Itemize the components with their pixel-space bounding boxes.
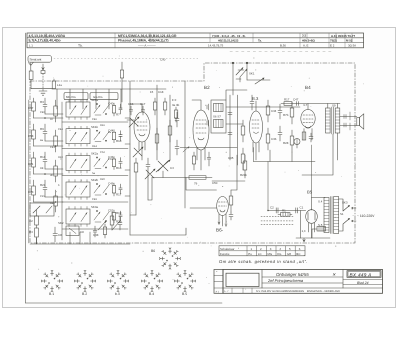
mid vertical wire b	[156, 85, 158, 160]
svg-text:C34: C34	[271, 109, 277, 113]
svg-text:C17: C17	[140, 102, 146, 106]
resistor R9	[32, 152, 36, 174]
tube B4 cathode components	[302, 132, 313, 142]
IF transformer T1	[207, 100, 226, 133]
label C58	[284, 98, 336, 108]
AF coupling column resistor R28	[266, 100, 270, 122]
socket diagram B3	[107, 270, 128, 291]
svg-text:R28: R28	[283, 141, 289, 145]
heater dotted wires	[261, 216, 293, 224]
svg-text:C2: C2	[270, 206, 274, 210]
resistor R1 left column	[32, 98, 36, 118]
capacitor C53 bottom	[93, 226, 97, 237]
resistor R2 lower-left	[35, 210, 39, 244]
svg-text:15: 15	[150, 90, 154, 94]
faint separator dots under table	[54, 52, 332, 59]
svg-text:Schakelaar: Schakelaar	[220, 247, 234, 251]
svg-text:C41: C41	[50, 146, 55, 149]
svg-text:C40: C40	[40, 111, 45, 114]
B+ feed wire	[337, 104, 339, 109]
switch table row 1 text	[220, 247, 301, 251]
svg-text:SK3: SK3	[342, 201, 348, 205]
switch wafer SK2b	[66, 180, 90, 200]
svg-text:C49: C49	[108, 182, 114, 186]
svg-text:GR: GR	[287, 252, 291, 256]
table row 1 text	[29, 34, 356, 38]
mixer tube B1	[130, 104, 150, 160]
grid feed wire to B6	[186, 178, 217, 191]
scan speckle	[37, 56, 364, 290]
svg-text:✕: ✕	[332, 272, 336, 277]
svg-text:B.5: B.5	[182, 292, 187, 296]
ground symbol	[39, 89, 47, 96]
AF tube B6	[217, 197, 229, 227]
svg-text:B6-: B6-	[216, 228, 224, 233]
svg-text:C05: C05	[228, 156, 234, 160]
svg-text:C46: C46	[92, 118, 97, 121]
anode wire B6	[190, 207, 217, 209]
AF switch contact	[183, 147, 189, 153]
svg-text:79: 79	[194, 182, 198, 186]
labels row SK2a	[91, 152, 122, 170]
handwritten note	[219, 259, 308, 264]
svg-text:R2: R2	[29, 219, 33, 223]
resistor R29	[266, 128, 270, 150]
svg-text:Pu: Pu	[248, 252, 252, 256]
loudspeaker	[357, 114, 364, 129]
antenna symbol	[28, 63, 33, 71]
svg-text:C47: C47	[293, 98, 299, 102]
svg-text:2: 2	[260, 247, 262, 251]
svg-text:S6 S7: S6 S7	[213, 115, 221, 119]
svg-text:2ef Principeschema: 2ef Principeschema	[267, 278, 304, 283]
electrolytic C2	[276, 208, 278, 213]
svg-text:14,43,78,75: 14,43,78,75	[208, 43, 224, 47]
svg-text:R4: R4	[29, 230, 33, 234]
grid leak C29 under B2	[207, 152, 211, 166]
socket diagram B2	[74, 270, 95, 291]
svg-text:R17: R17	[116, 192, 122, 196]
svg-text:R14: R14	[92, 145, 97, 148]
svg-text:R7: R7	[116, 112, 120, 116]
svg-text:C67: C67	[28, 106, 34, 110]
svg-text:3 2: 3 2	[302, 34, 306, 38]
trimmer capacitor C3	[129, 117, 139, 127]
speaker wires	[340, 117, 357, 126]
svg-text:5: 5	[289, 247, 291, 251]
resistor R1b output feed	[284, 102, 299, 106]
svg-text:C50: C50	[212, 181, 218, 185]
svg-text:R7: R7	[50, 118, 54, 121]
subtitle text	[267, 278, 304, 283]
drawing number box BX449A	[347, 271, 381, 278]
antenna coil L1	[52, 79, 55, 89]
svg-text:R21: R21	[40, 183, 46, 187]
switch SK1c	[236, 68, 247, 83]
pilot lamp	[294, 139, 300, 149]
sheet number	[343, 279, 383, 284]
wire y181	[212, 180, 245, 182]
resistor R15 top row	[174, 107, 177, 122]
T1 labels	[213, 115, 221, 119]
svg-text:R12: R12	[50, 202, 55, 205]
svg-text:R20: R20	[116, 219, 122, 223]
svg-text:R3: R3	[40, 100, 44, 104]
volume pot wiper arrow	[247, 78, 270, 84]
IF amp tube B3	[250, 101, 263, 160]
svg-text:B,50: B,50	[280, 43, 286, 47]
transformer core lines	[331, 197, 332, 234]
potentiometer R9b	[189, 176, 206, 180]
transformer primary top wire	[327, 104, 329, 109]
resistor R13 top row	[163, 98, 166, 115]
svg-text:SK2: SK2	[58, 221, 64, 225]
switch wafer SK1b	[66, 126, 90, 146]
AVC line drop 1	[232, 62, 234, 95]
labels row SK2b	[91, 178, 122, 196]
B6 bypass cap	[229, 212, 233, 220]
output tube B4	[301, 104, 315, 141]
svg-text:7,530 . 3×1,2 . 45 . 19 . B.: 7,530 . 3×1,2 . 45 . 19 . B.	[212, 34, 246, 38]
resistor R22 bottom	[103, 224, 106, 238]
output transformer core	[332, 107, 334, 134]
HT bottom wire	[296, 238, 330, 242]
mains voltage label	[357, 214, 375, 218]
svg-text:MG KG: MG KG	[66, 95, 76, 99]
PSU feed wire	[268, 210, 306, 212]
socket diagram B5	[174, 270, 195, 291]
resistor R30	[290, 102, 294, 124]
plate return wire	[302, 134, 333, 175]
drawing frame left edge	[25, 33, 27, 303]
capacitor C9	[43, 152, 47, 169]
tube B1 grid cap	[127, 119, 134, 121]
svg-text:R19: R19	[116, 211, 122, 215]
capacitor C46	[119, 158, 122, 168]
HT dropper wire	[253, 148, 255, 162]
company strip	[232, 288, 252, 293]
svg-text:40(13),21,(A)23: 40(13),21,(A)23	[218, 38, 239, 42]
wafer column bus	[61, 102, 63, 240]
mains transformer primary S4	[324, 198, 329, 233]
svg-text:C40: C40	[108, 102, 114, 106]
SK4 label	[342, 201, 348, 205]
svg-text:C4: C4	[170, 166, 174, 170]
oscillator tube B2 envelope	[192, 100, 209, 170]
misc IF labels row	[128, 90, 180, 107]
svg-text:M 52: M 52	[346, 38, 353, 42]
resistor R10	[112, 130, 115, 143]
left bus wire	[28, 100, 30, 243]
row wire SK2a	[62, 175, 128, 177]
IF bus wire	[254, 161, 316, 163]
screen wire	[337, 133, 339, 160]
svg-text:C15: C15	[40, 195, 45, 198]
wire below B1 to bus	[130, 178, 152, 216]
wire drops from bus	[57, 89, 121, 109]
svg-text:R20: R20	[100, 178, 105, 181]
svg-text:4a: 4a	[40, 139, 43, 142]
svg-text:—— A ———: —— A ———	[138, 43, 156, 47]
contacts right of SK1a	[94, 103, 109, 115]
B6 designation	[216, 228, 224, 233]
title text Ontvanger	[276, 272, 336, 277]
svg-text:75(2): 75(2)	[330, 38, 337, 42]
wire bus top of tuner	[52, 88, 166, 90]
svg-text:4,5,13,19,35,40A,VGRA: 4,5,13,19,35,40A,VGRA	[29, 34, 66, 38]
svg-text:R14: R14	[40, 155, 46, 159]
C4 reservoir label	[302, 229, 306, 233]
capacitor C22 below B1	[146, 158, 150, 200]
svg-text:B2: B2	[204, 85, 210, 90]
svg-text:A · 7: A · 7	[224, 290, 229, 293]
coil L2 left	[54, 100, 58, 122]
wire across detector	[226, 107, 281, 124]
bottom bus wire lower-left	[30, 238, 130, 244]
svg-text:R8: R8	[40, 167, 44, 170]
wafer drop wires	[70, 232, 90, 244]
table row 3 text	[29, 43, 356, 47]
resistor R19	[110, 212, 114, 230]
coil L4 left	[54, 160, 58, 182]
svg-text:Smal.ant: Smal.ant	[30, 57, 42, 61]
svg-text:C71: C71	[28, 162, 34, 166]
svg-text:R10: R10	[116, 139, 122, 143]
svg-text:C36: C36	[271, 137, 277, 141]
resistor R12	[32, 180, 36, 202]
capacitor C15 mid	[175, 140, 179, 155]
svg-text:C8: C8	[58, 233, 62, 237]
socket diagram B6	[159, 248, 180, 269]
top parts-list table	[27, 33, 364, 48]
svg-text:Om alle schak. getekend in sta: Om alle schak. getekend in stand „uit”.	[219, 259, 308, 264]
mains transformer secondary S1	[334, 197, 339, 234]
svg-text:R1: R1	[282, 209, 286, 213]
resistor R16 mid	[155, 128, 159, 150]
socket labels	[49, 249, 187, 296]
svg-text:3Ω 5A: 3Ω 5A	[348, 43, 356, 47]
svg-text:L 1: L 1	[29, 43, 33, 47]
svg-text:LC: LC	[258, 252, 262, 256]
revision column	[214, 270, 223, 294]
svg-text:B.1: B.1	[49, 292, 54, 296]
svg-text:SK1: SK1	[249, 72, 255, 76]
heater supply wire	[311, 145, 313, 198]
resistor R40	[243, 155, 247, 178]
svg-text:5,7(A,17),8,9,40,4Ωo: 5,7(A,17),8,9,40,4Ωo	[29, 38, 61, 42]
antenna series capacitor C1	[29, 70, 52, 89]
labels row SK1b	[91, 125, 122, 143]
contacts right of SK2a	[94, 157, 109, 169]
bottom bus wire mid	[130, 228, 186, 235]
svg-text:SK1b: SK1b	[91, 125, 98, 129]
speaker feed caps	[344, 112, 350, 130]
capacitor C36	[278, 126, 282, 141]
mid vertical wire d	[184, 81, 186, 208]
svg-text:SK2b: SK2b	[91, 178, 98, 182]
PSU pin dots	[267, 210, 268, 211]
resistor R18 mid	[168, 120, 172, 142]
label C50	[212, 156, 247, 185]
svg-text:S.5: S.5	[318, 223, 323, 227]
band indicator box MG KG	[64, 93, 118, 100]
svg-text:C1: C1	[300, 206, 304, 210]
title block outer frame	[223, 270, 383, 294]
socket diagram B4	[141, 270, 162, 291]
svg-text:40k 3×8Ω: 40k 3×8Ω	[302, 38, 316, 42]
switch contacts SK2c	[98, 221, 120, 230]
Smal ant label box	[28, 56, 52, 63]
socket diagram B1	[41, 270, 62, 291]
svg-text:3: 3	[270, 247, 272, 251]
resistor R25	[241, 148, 245, 170]
capacitor C12	[43, 180, 47, 197]
B5 designation	[307, 190, 313, 195]
capacitor C40	[119, 104, 122, 114]
drop from IF bus	[270, 150, 292, 162]
B5 anode wire to S4	[312, 198, 326, 210]
electrolytic C1	[296, 208, 298, 213]
svg-text:C52: C52	[108, 209, 114, 213]
row wire SK1a	[62, 121, 128, 123]
svg-text:R9: R9	[40, 127, 44, 131]
svg-text:Phasout,45,18MA, 40/5(44,1),(: Phasout,45,18MA, 40/5(44,1),(7)	[118, 38, 169, 42]
capacitor C49	[119, 184, 122, 194]
svg-text:S9: S9	[332, 104, 336, 108]
drawing frame bottom edge	[26, 302, 223, 304]
oscillator grid components right	[228, 95, 232, 160]
contacts right of SK1b	[94, 130, 109, 142]
capacitor C44	[119, 131, 122, 141]
svg-text:SK2a: SK2a	[91, 152, 98, 156]
svg-text:3a 3b: 3a 3b	[172, 103, 180, 107]
svg-text:Blad 24: Blad 24	[357, 281, 369, 285]
svg-text:C44: C44	[58, 128, 63, 131]
capacitor C67	[43, 98, 47, 114]
svg-text:C68: C68	[28, 134, 34, 138]
capacitor C34	[278, 104, 282, 119]
contacts right of SK3a	[94, 210, 109, 222]
trimmer capacitor C6	[145, 169, 155, 179]
svg-text:5a: 5a	[92, 172, 95, 175]
svg-text:6: 6	[299, 247, 301, 251]
svg-text:R7b: R7b	[283, 113, 289, 117]
svg-text:E 2: E 2	[330, 43, 335, 47]
svg-text:C16: C16	[128, 102, 134, 106]
svg-text:C48: C48	[93, 233, 99, 237]
component value labels scatter	[40, 111, 113, 205]
capacitor C16 body	[129, 106, 132, 115]
screen feed wire	[267, 162, 269, 211]
svg-text:B6: B6	[151, 249, 155, 253]
row wire SK2b	[62, 201, 128, 203]
svg-text:3b: 3b	[50, 174, 53, 177]
resistor R31	[290, 130, 294, 152]
contacts right of SK2b	[94, 183, 109, 195]
svg-text:R17: R17	[284, 98, 290, 102]
svg-text:KG: KG	[277, 252, 282, 256]
resistor R3	[32, 124, 36, 146]
svg-text:C52: C52	[100, 151, 105, 154]
left column labels	[28, 100, 46, 194]
svg-text:MFC1,53MCA,36,6,30,B16,121,63,: MFC1,53MCA,36,6,30,B16,121,63,GR	[118, 34, 177, 38]
switch wafer SK3a	[66, 207, 90, 227]
resistor R11 top row	[153, 98, 156, 115]
svg-text:4-7: 4-7	[303, 103, 308, 107]
svg-text:MG: MG	[268, 252, 273, 256]
lower-left switch box	[30, 203, 54, 216]
svg-text:Ontvanger 54/55: Ontvanger 54/55	[276, 272, 309, 277]
logo box	[226, 270, 262, 289]
svg-text:B.3: B.3	[252, 96, 259, 101]
B4 designation	[305, 85, 311, 90]
svg-text:C90: C90	[160, 58, 166, 62]
earth terminal arrow	[41, 64, 45, 89]
right coupling vertical	[231, 155, 237, 190]
capacitor C14 mid	[175, 112, 179, 127]
chassis dashed boundary box	[30, 63, 355, 243]
capacitor C17 body	[141, 106, 144, 115]
detector vertical wire	[237, 95, 239, 165]
label 4-7	[303, 103, 308, 107]
pot line wire	[152, 177, 212, 179]
capacitor C48	[118, 216, 122, 230]
switch wafer SK2a	[66, 153, 90, 173]
tuning gang C4	[156, 160, 170, 178]
B3 designation	[252, 96, 259, 101]
rectifier tube B5	[306, 209, 318, 238]
svg-text:B5: B5	[307, 190, 313, 195]
title centre divider	[262, 270, 343, 289]
node dots left block	[44, 117, 56, 203]
capacitor C52	[119, 211, 122, 221]
svg-text:SK1a: SK1a	[91, 98, 98, 102]
svg-text:b: b	[58, 184, 60, 187]
svg-text:S1: S1	[340, 212, 344, 216]
svg-text:4: 4	[279, 247, 281, 251]
svg-text:SK3a: SK3a	[91, 205, 98, 209]
resistor R7	[112, 103, 115, 116]
svg-text:R13: R13	[116, 166, 122, 170]
row wire SK3a	[62, 228, 128, 230]
reservoir cap wire	[300, 211, 302, 239]
svg-text:1,4: 1,4	[302, 229, 306, 233]
wire bottom mid	[180, 147, 237, 149]
capacitor C8 lower-left	[53, 227, 57, 242]
svg-text:b.3: b.3	[115, 292, 120, 296]
svg-text:BX 449 A: BX 449 A	[350, 272, 372, 277]
svg-text:~ 110-220V: ~ 110-220V	[357, 214, 375, 218]
coil L5 left	[54, 190, 58, 212]
labels lower-left	[58, 211, 122, 237]
interconnect wires left block	[34, 114, 64, 202]
svg-text:R16: R16	[100, 124, 105, 127]
coupling capacitor C30	[250, 95, 254, 110]
resistor R6a below B1	[134, 158, 138, 215]
trimmer capacitor C5	[133, 147, 143, 157]
svg-text:Ta.: Ta.	[78, 44, 83, 48]
labels row SK3a	[91, 205, 122, 223]
switch wafer SK1a	[66, 100, 90, 120]
coil L3 left	[54, 130, 58, 152]
svg-text:Functie: Functie	[220, 252, 230, 256]
AF column labels	[271, 109, 289, 145]
mains entry arrows	[352, 207, 357, 222]
svg-text:C49: C49	[92, 198, 97, 201]
output transformer secondary	[335, 108, 340, 133]
drawing number text	[350, 272, 372, 277]
svg-text:BC: BC	[296, 252, 300, 256]
